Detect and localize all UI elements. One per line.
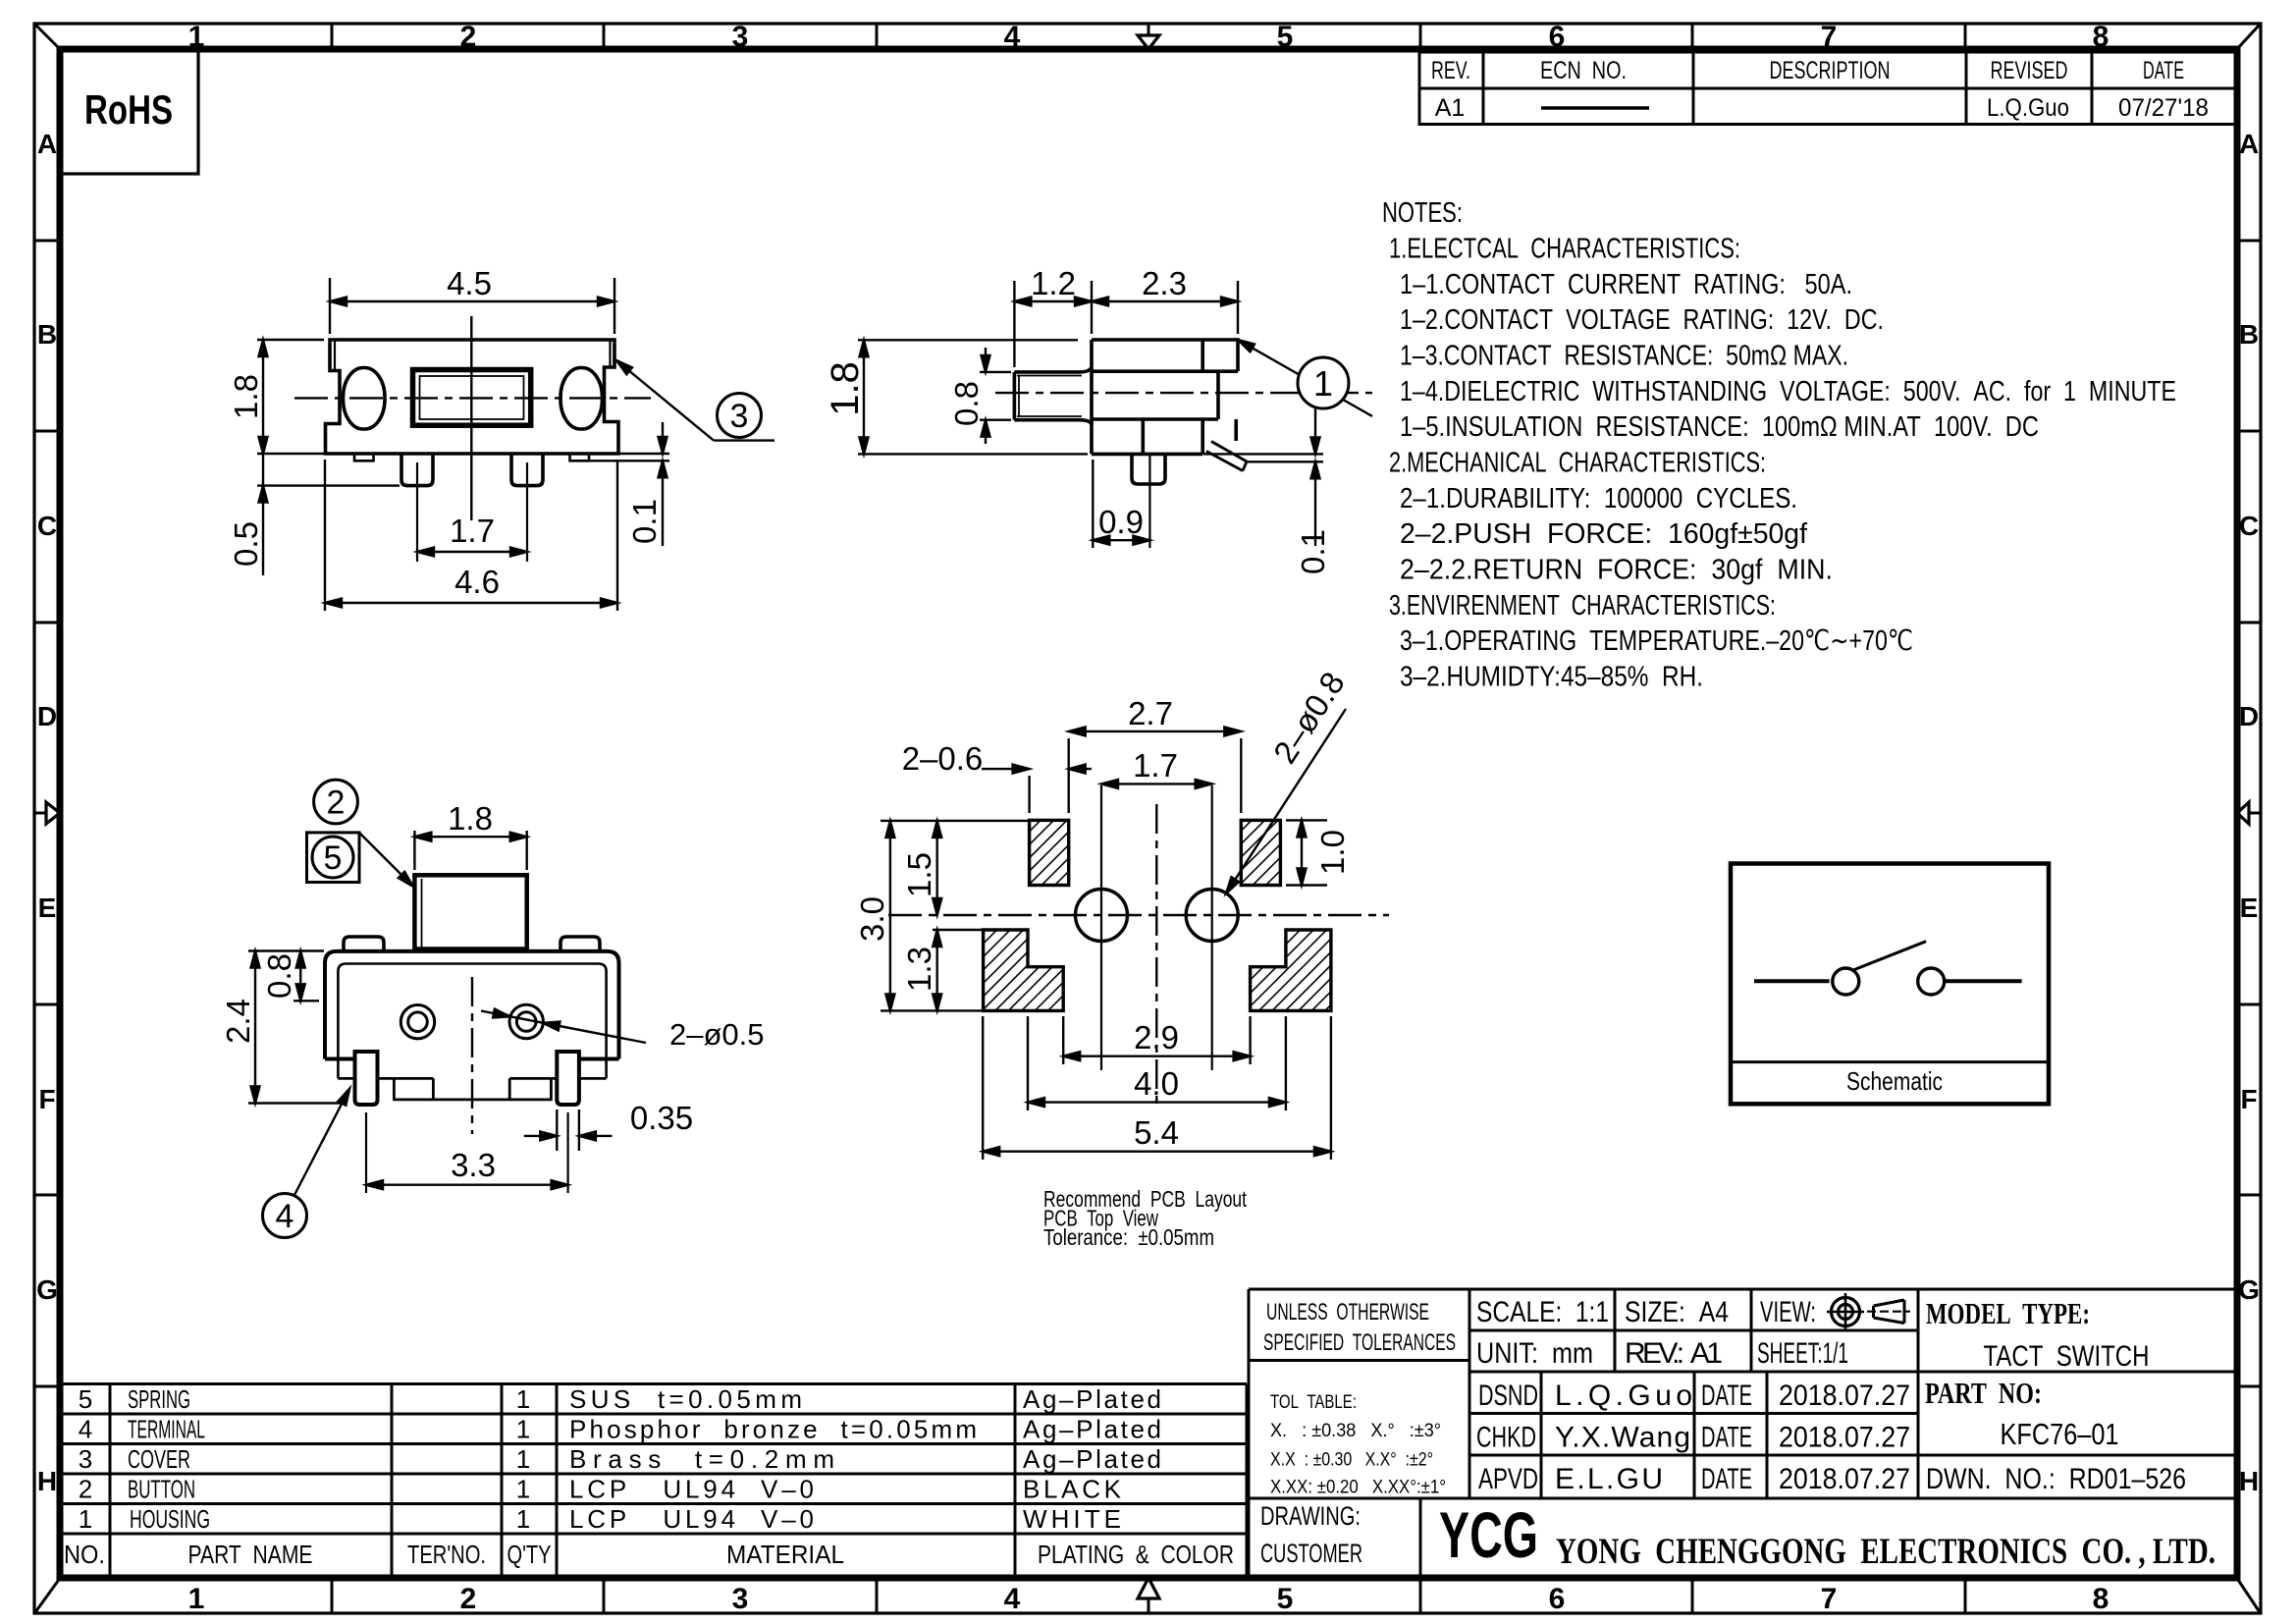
svg-text:TERMINAL: TERMINAL <box>128 1415 205 1444</box>
dim 1.7 pcb <box>1101 747 1212 788</box>
svg-text:TOL TABLE:: TOL TABLE: <box>1270 1392 1357 1413</box>
balloon 4 <box>263 1194 307 1238</box>
centering mark bottom <box>1138 1578 1159 1613</box>
leg left <box>355 1052 378 1105</box>
dim 4.6 bottom <box>325 460 617 611</box>
svg-text:CHKD: CHKD <box>1476 1422 1536 1454</box>
pcb note <box>1043 1186 1247 1250</box>
dim 1.0 <box>1286 820 1351 885</box>
centering mark left <box>34 802 60 824</box>
svg-text:1.2: 1.2 <box>1031 265 1076 301</box>
svg-text:D: D <box>2239 701 2259 731</box>
svg-text:3: 3 <box>79 1444 92 1474</box>
svg-text:ECN NO.: ECN NO. <box>1540 57 1627 84</box>
side view lower slab divider <box>1142 419 1146 454</box>
svg-text:HOUSING: HOUSING <box>130 1504 210 1534</box>
svg-text:RoHS: RoHS <box>84 86 173 133</box>
zone numbers bottom <box>188 1583 2109 1615</box>
dim 5.4 <box>983 1016 1331 1160</box>
svg-text:REV.: REV. <box>1431 57 1470 84</box>
svg-text:3.ENVIRENMENT CHARACTERISTICS: 3.ENVIRENMENT CHARACTERISTICS: <box>1389 590 1776 622</box>
svg-text:1–3.CONTACT RESISTANCE: 50mΩ: 1–3.CONTACT RESISTANCE: 50mΩ MAX. <box>1400 341 1848 372</box>
dim 2.9 <box>1063 1016 1250 1064</box>
title block outline <box>1249 1288 2237 1291</box>
svg-text:DESCRIPTION: DESCRIPTION <box>1770 57 1891 84</box>
balloon 1 <box>1298 357 1349 408</box>
zone numbers top <box>188 21 2109 53</box>
svg-text:2: 2 <box>327 785 346 822</box>
svg-text:2018.07.27: 2018.07.27 <box>1779 1463 1910 1495</box>
svg-text:D: D <box>37 701 57 731</box>
centre button window outer <box>413 370 531 426</box>
svg-text:PART NAME: PART NAME <box>188 1540 313 1569</box>
svg-text:2: 2 <box>79 1475 92 1504</box>
base tab left <box>354 454 374 460</box>
svg-text:3: 3 <box>732 1583 749 1615</box>
svg-text:4.6: 4.6 <box>454 564 500 600</box>
hole right <box>1186 890 1238 942</box>
side view flange <box>1202 419 1236 454</box>
svg-text:G: G <box>36 1274 58 1305</box>
svg-text:H: H <box>2239 1466 2259 1496</box>
top ear left <box>344 937 384 951</box>
svg-text:DSND: DSND <box>1478 1380 1538 1412</box>
svg-text:H: H <box>37 1466 57 1496</box>
svg-text:1: 1 <box>188 1583 205 1615</box>
schematic label divider <box>1731 1060 2049 1063</box>
front view cover outline <box>326 340 619 454</box>
leg centreline left <box>365 1112 367 1193</box>
svg-text:BLACK: BLACK <box>1023 1475 1122 1504</box>
zone letters left <box>36 129 58 1496</box>
svg-text:B: B <box>2239 319 2259 350</box>
RoHS box <box>60 49 198 174</box>
button stem <box>414 875 526 948</box>
svg-text:1: 1 <box>516 1384 530 1414</box>
svg-text:Ag–Plated: Ag–Plated <box>1023 1384 1161 1414</box>
revision table grid <box>1419 52 2235 125</box>
svg-text:4: 4 <box>79 1415 92 1444</box>
svg-text:07/27'18: 07/27'18 <box>2118 94 2209 122</box>
tolerance box divider <box>1249 1359 1469 1362</box>
cover fold line left <box>334 340 336 369</box>
svg-text:2018.07.27: 2018.07.27 <box>1779 1380 1910 1412</box>
dim 0.5 left <box>228 435 400 575</box>
balloon 1 leader <box>1236 336 1372 416</box>
svg-text:0.9: 0.9 <box>1098 504 1144 540</box>
pad bottom-right <box>1251 930 1331 1010</box>
vertical centreline <box>470 316 472 520</box>
svg-text:NOTES:: NOTES: <box>1382 197 1463 229</box>
svg-text:2–2.PUSH FORCE: 160gf±50gf: 2–2.PUSH FORCE: 160gf±50gf <box>1400 518 1807 550</box>
side leg centreline <box>1148 454 1150 548</box>
dim 0.9 <box>1093 460 1149 548</box>
svg-text:4.5: 4.5 <box>447 265 492 301</box>
svg-text:5: 5 <box>324 839 343 877</box>
dim 1.2 <box>1014 265 1092 367</box>
svg-text:6: 6 <box>1549 21 1566 53</box>
svg-text:1.8: 1.8 <box>448 800 493 837</box>
svg-text:2–1.DURABILITY: 100000 CYCLE: 2–1.DURABILITY: 100000 CYCLES. <box>1400 483 1797 514</box>
dim 2.7 <box>1069 695 1242 813</box>
signer rows <box>1469 1412 1918 1415</box>
svg-text:DATE: DATE <box>1701 1463 1752 1495</box>
svg-text:SIZE: A4: SIZE: A4 <box>1625 1296 1729 1328</box>
svg-text:0.8: 0.8 <box>948 381 985 426</box>
dim 1.8 left <box>228 340 324 454</box>
side view body outline <box>1092 340 1238 454</box>
svg-text:G: G <box>2238 1274 2260 1305</box>
svg-text:2018.07.27: 2018.07.27 <box>1779 1422 1910 1454</box>
corner bevel BL <box>35 1577 61 1612</box>
svg-text:0.35: 0.35 <box>630 1100 693 1136</box>
svg-text:1–1.CONTACT CURRENT RATING:: 1–1.CONTACT CURRENT RATING: 50A. <box>1400 269 1852 300</box>
housing bottom profile <box>338 1078 606 1100</box>
cover fold line right <box>609 340 611 367</box>
corner bevel TL <box>35 25 61 50</box>
svg-text:2.MECHANICAL CHARACTERISTICS:: 2.MECHANICAL CHARACTERISTICS: <box>1389 448 1766 479</box>
svg-text:3.3: 3.3 <box>451 1147 496 1183</box>
side view top slab divider <box>1201 340 1204 371</box>
svg-text:SCALE: 1:1: SCALE: 1:1 <box>1476 1296 1609 1328</box>
svg-text:REVISED: REVISED <box>1991 57 2068 84</box>
svg-text:2.7: 2.7 <box>1128 695 1173 731</box>
svg-text:8: 8 <box>2093 21 2109 53</box>
right leg <box>511 454 543 486</box>
svg-text:VIEW:: VIEW: <box>1760 1296 1816 1328</box>
switch wire left <box>1754 979 1830 983</box>
zone ticks bottom <box>332 1578 1965 1613</box>
dim 2.4 <box>220 951 344 1104</box>
svg-text:MATERIAL: MATERIAL <box>726 1540 844 1569</box>
svg-text:1.0: 1.0 <box>1314 830 1351 875</box>
svg-text:1.8: 1.8 <box>824 361 867 416</box>
svg-text:4: 4 <box>276 1198 294 1235</box>
rivet circle right <box>509 1004 543 1038</box>
svg-text:5: 5 <box>1277 21 1294 53</box>
side centreline <box>995 392 1372 394</box>
svg-text:2: 2 <box>460 21 477 53</box>
parts table grid <box>61 1382 1247 1385</box>
top ear right <box>561 937 600 951</box>
svg-text:E: E <box>38 893 57 923</box>
svg-text:X.X : ±0.30 X.X° :±2°: X.X : ±0.30 X.X° :±2° <box>1270 1450 1433 1471</box>
hole axis left <box>1100 785 1102 1070</box>
balloon 2 <box>314 780 358 824</box>
svg-text:NO.: NO. <box>64 1540 105 1569</box>
dim 3.3 <box>366 1147 568 1189</box>
pad top-right <box>1241 820 1280 885</box>
horizontal centreline <box>888 914 1389 916</box>
svg-text:0.5: 0.5 <box>228 521 264 567</box>
housing outer <box>325 951 619 1059</box>
svg-text:2.3: 2.3 <box>1142 265 1187 301</box>
dim 1.3 <box>901 930 984 1010</box>
svg-text:CUSTOMER: CUSTOMER <box>1260 1539 1362 1568</box>
svg-text:4.0: 4.0 <box>1134 1065 1179 1102</box>
svg-text:A: A <box>37 129 57 159</box>
svg-text:COVER: COVER <box>128 1444 190 1474</box>
vertical centreline <box>1155 804 1157 1110</box>
dim 2.3 <box>1092 265 1238 334</box>
right oval hole <box>561 368 603 430</box>
svg-text:DWN. NO.: RD01–526: DWN. NO.: RD01–526 <box>1926 1463 2186 1495</box>
svg-text:PART NO:: PART NO: <box>1925 1376 2042 1410</box>
svg-text:E.L.GU: E.L.GU <box>1555 1463 1663 1495</box>
svg-text:1.ELECTCAL CHARACTERISTICS:: 1.ELECTCAL CHARACTERISTICS: <box>1389 234 1740 265</box>
revision table header text <box>1431 57 2184 84</box>
svg-text:0.1: 0.1 <box>626 499 663 544</box>
svg-text:L.Q.Guo: L.Q.Guo <box>1987 94 2069 122</box>
switch wire right <box>1945 979 2021 983</box>
svg-text:2–0.6: 2–0.6 <box>902 740 984 777</box>
svg-text:C: C <box>2239 511 2259 541</box>
svg-text:8: 8 <box>2093 1583 2109 1615</box>
dim 2-diam0.8 leader <box>1222 666 1352 896</box>
button stem inner line <box>421 879 423 948</box>
svg-text:2: 2 <box>460 1583 477 1615</box>
svg-text:5: 5 <box>79 1384 92 1414</box>
svg-text:2–ø0.5: 2–ø0.5 <box>669 1017 765 1052</box>
svg-text:TER'NO.: TER'NO. <box>407 1540 486 1569</box>
svg-text:1.8: 1.8 <box>228 374 264 419</box>
leg centreline right <box>566 1112 568 1193</box>
view symbol cone <box>1867 1300 1910 1324</box>
dim 1.5 <box>901 821 941 915</box>
svg-text:3–1.OPERATING TEMPERATURE.–20: 3–1.OPERATING TEMPERATURE.–20℃∼+70℃ <box>1400 625 1913 657</box>
centering mark top <box>1138 24 1159 49</box>
svg-text:4: 4 <box>1004 1583 1021 1615</box>
svg-text:1.3: 1.3 <box>901 947 937 992</box>
svg-text:F: F <box>2240 1084 2257 1114</box>
svg-text:7: 7 <box>1821 1583 1838 1615</box>
svg-text:2–2.2.RETURN FORCE: 30gf MI: 2–2.2.RETURN FORCE: 30gf MIN. <box>1400 555 1833 586</box>
svg-text:KFC76–01: KFC76–01 <box>2001 1417 2119 1451</box>
svg-text:1–5.INSULATION RESISTANCE: 1: 1–5.INSULATION RESISTANCE: 100mΩ MIN.AT … <box>1400 411 2039 443</box>
svg-text:5.4: 5.4 <box>1134 1114 1179 1151</box>
base tab right <box>570 454 590 460</box>
dim 1.7 bottom <box>417 513 527 557</box>
svg-text:Tolerance: ±0.05mm: Tolerance: ±0.05mm <box>1043 1224 1214 1250</box>
row line above drawing box <box>1249 1497 2237 1500</box>
svg-text:Brass t=0.2mm: Brass t=0.2mm <box>569 1444 834 1474</box>
svg-text:F: F <box>38 1084 55 1114</box>
scale row lines <box>1469 1329 1918 1332</box>
svg-text:YCG: YCG <box>1439 1498 1538 1571</box>
svg-text:E: E <box>2240 893 2259 923</box>
svg-text:C: C <box>37 511 57 541</box>
zone ticks top <box>332 24 1965 49</box>
rivet circle left <box>400 1004 434 1038</box>
corner bevel BR <box>2236 1577 2260 1612</box>
svg-text:0.1: 0.1 <box>1295 529 1331 574</box>
left oval hole <box>344 368 386 430</box>
svg-text:Q'TY: Q'TY <box>507 1540 552 1569</box>
svg-text:3: 3 <box>732 21 749 53</box>
svg-text:1–4.DIELECTRIC WITHSTANDING: 1–4.DIELECTRIC WITHSTANDING VOLTAGE: 500… <box>1400 376 2176 407</box>
parts table text <box>64 1384 1234 1569</box>
dim 3.0 <box>854 821 1029 1011</box>
svg-text:A1: A1 <box>1435 94 1466 122</box>
switch lever <box>1853 942 1926 970</box>
svg-text:Phosphor bronze t=0.05mm: Phosphor bronze t=0.05mm <box>569 1415 977 1444</box>
svg-text:0.8: 0.8 <box>261 953 297 999</box>
svg-text:1: 1 <box>516 1475 530 1504</box>
ecn dash <box>1541 106 1649 110</box>
side button inner lines <box>1017 376 1082 417</box>
zone letters right <box>2238 129 2260 1496</box>
svg-text:DATE: DATE <box>1701 1380 1752 1412</box>
svg-text:Ag–Plated: Ag–Plated <box>1023 1444 1161 1474</box>
svg-text:UNLESS OTHERWISE: UNLESS OTHERWISE <box>1266 1299 1429 1326</box>
svg-text:1.7: 1.7 <box>1133 747 1178 784</box>
svg-text:X. : ±0.38 X.° :±3°: X. : ±0.38 X.° :±3° <box>1270 1421 1441 1441</box>
side button outer <box>1014 367 1092 424</box>
leg centreline right <box>526 462 528 562</box>
svg-text:PLATING & COLOR: PLATING & COLOR <box>1038 1540 1234 1569</box>
switch contact right <box>1918 968 1945 995</box>
svg-text:TACT SWITCH: TACT SWITCH <box>1984 1340 2150 1373</box>
dim 4.0 <box>1028 1016 1286 1110</box>
horizontal centreline <box>294 397 651 399</box>
leg centreline left <box>416 462 418 562</box>
svg-text:DATE: DATE <box>2143 57 2184 84</box>
svg-text:BUTTON: BUTTON <box>128 1475 195 1504</box>
svg-text:X.XX: ±0.20 X.XX°:±1°: X.XX: ±0.20 X.XX°:±1° <box>1270 1478 1446 1498</box>
leg right <box>557 1052 579 1105</box>
svg-text:1: 1 <box>516 1415 530 1444</box>
centering mark right <box>2237 802 2261 824</box>
bent terminal strip <box>1206 442 1247 471</box>
svg-text:3.0: 3.0 <box>854 896 890 942</box>
svg-text:Y.X.Wang: Y.X.Wang <box>1555 1422 1690 1454</box>
svg-text:REV.: A1: REV.: A1 <box>1625 1337 1723 1370</box>
dim 4.5 <box>330 265 614 334</box>
svg-text:1–2.CONTACT VOLTAGE RATING:: 1–2.CONTACT VOLTAGE RATING: 12V. DC. <box>1400 304 1884 336</box>
housing inner <box>338 964 606 1079</box>
drawing box right edge <box>1419 1498 1422 1575</box>
scale unit text <box>1476 1296 1910 1495</box>
dim 0.35 <box>524 1100 693 1151</box>
left leg <box>401 454 433 486</box>
pad bottom-left <box>984 930 1064 1010</box>
dim 0.1 right <box>590 422 669 546</box>
zone ticks left <box>34 241 60 1386</box>
centre button window inner <box>420 376 524 419</box>
svg-text:SPECIFIED TOLERANCES: SPECIFIED TOLERANCES <box>1263 1329 1456 1356</box>
svg-text:Schematic: Schematic <box>1846 1066 1943 1096</box>
svg-text:B: B <box>37 319 57 350</box>
svg-text:1.7: 1.7 <box>450 513 495 549</box>
svg-text:DATE: DATE <box>1701 1422 1752 1454</box>
svg-text:5: 5 <box>1277 1583 1294 1615</box>
dim 0.1 side <box>1203 405 1331 574</box>
svg-text:UNIT: mm: UNIT: mm <box>1476 1337 1593 1370</box>
svg-text:MODEL TYPE:: MODEL TYPE: <box>1926 1296 2090 1330</box>
balloon 3 leader <box>614 357 774 441</box>
svg-text:7: 7 <box>1821 21 1838 53</box>
tolerance text <box>1263 1299 1456 1498</box>
svg-text:4: 4 <box>1004 21 1021 53</box>
vertical centreline <box>471 977 473 1134</box>
svg-text:A: A <box>2239 129 2259 159</box>
hole axis right <box>1211 785 1213 1070</box>
zone ticks right <box>2237 241 2261 1386</box>
svg-text:SPRING: SPRING <box>128 1384 190 1414</box>
dim 1.8 side <box>824 340 1088 454</box>
svg-text:YONG CHENGGONG ELECTRONICS: YONG CHENGGONG ELECTRONICS CO. , LTD. <box>1556 1532 2216 1572</box>
svg-text:Ag–Plated: Ag–Plated <box>1023 1415 1161 1444</box>
corner bevel TR <box>2236 25 2260 50</box>
svg-text:1: 1 <box>516 1504 530 1534</box>
switch contact left <box>1833 968 1859 995</box>
svg-text:APVD: APVD <box>1478 1463 1538 1495</box>
svg-text:DRAWING:: DRAWING: <box>1260 1501 1361 1531</box>
svg-text:3–2.HUMIDTY:45–85% RH.: 3–2.HUMIDTY:45–85% RH. <box>1400 662 1703 693</box>
pad top-left <box>1030 820 1069 885</box>
svg-text:2.9: 2.9 <box>1134 1019 1179 1056</box>
dim 0.8 side <box>948 348 1011 444</box>
side leg <box>1132 454 1165 484</box>
dim 0.8 housing <box>261 951 319 1001</box>
balloon 2/5 leader <box>359 833 416 890</box>
svg-text:1: 1 <box>79 1504 92 1534</box>
svg-text:SHEET:1/1: SHEET:1/1 <box>1757 1337 1848 1370</box>
balloon 5 box <box>307 833 360 883</box>
dim 2-diam0.5 leader <box>481 1009 765 1052</box>
dim 2-0.6 <box>902 740 1092 813</box>
dim 1.8 button <box>414 800 526 870</box>
view symbol target <box>1827 1293 1864 1330</box>
svg-text:1: 1 <box>1313 363 1333 404</box>
svg-text:1.5: 1.5 <box>901 852 937 897</box>
balloon 3 <box>718 394 762 438</box>
svg-text:6: 6 <box>1549 1583 1566 1615</box>
hole left <box>1076 890 1128 942</box>
balloon 4 leader <box>294 1087 353 1195</box>
schematic box <box>1731 864 2049 1105</box>
svg-text:2.4: 2.4 <box>220 999 256 1044</box>
svg-text:3: 3 <box>730 398 749 435</box>
svg-text:1: 1 <box>516 1444 530 1474</box>
revision row A1 <box>1435 94 2209 122</box>
